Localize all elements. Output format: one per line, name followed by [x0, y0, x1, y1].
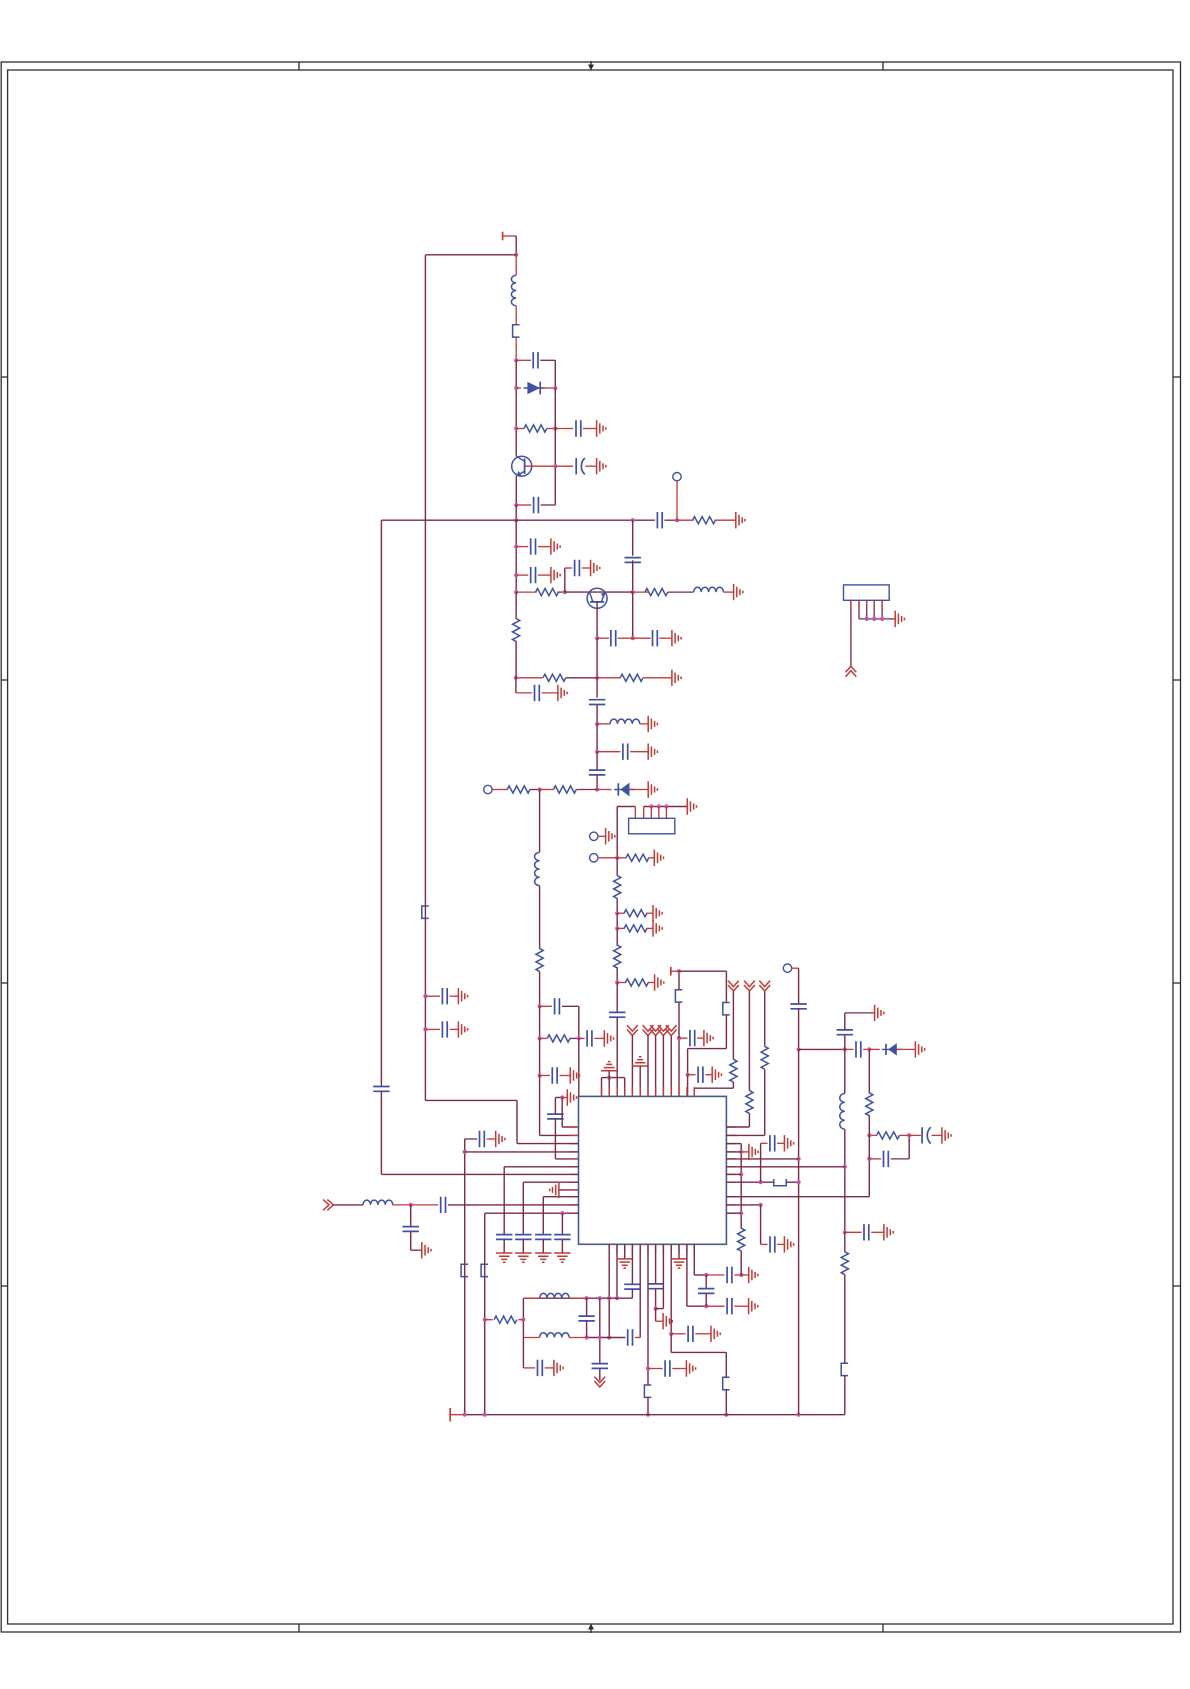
wire — [799, 1048, 845, 1050]
ground — [671, 1259, 687, 1268]
wire — [648, 1368, 663, 1370]
resistor R6 — [620, 674, 643, 681]
wire — [897, 1048, 916, 1050]
wire connector ground bus — [859, 618, 895, 620]
junction — [514, 426, 518, 430]
inductor L1 — [511, 275, 516, 305]
capacitor C28 — [442, 1021, 447, 1037]
wire — [515, 337, 517, 360]
wire Q1 right bus — [554, 388, 556, 505]
IC U1 top pin stub x=601.5 — [601, 1087, 603, 1096]
wire IC left row gnd — [559, 1189, 579, 1191]
junction — [843, 1165, 847, 1169]
junction — [514, 590, 518, 594]
wire — [844, 1034, 846, 1049]
resistor R18 — [730, 1059, 737, 1082]
wire — [725, 1352, 727, 1377]
capacitor C15 — [623, 744, 628, 760]
wire — [671, 1351, 726, 1353]
junction — [538, 1036, 542, 1040]
junction — [585, 1296, 589, 1300]
capacitor C31 — [535, 1235, 551, 1240]
wire — [539, 790, 541, 853]
ground — [551, 538, 560, 554]
junction — [739, 1273, 743, 1277]
junction — [654, 1307, 658, 1311]
wire — [333, 1204, 363, 1206]
wire — [522, 1338, 524, 1368]
wire — [542, 1239, 544, 1253]
wire trimmer pin2 — [643, 807, 645, 819]
capacitor C35 (inline) — [647, 1284, 663, 1289]
junction — [907, 1133, 911, 1137]
wire IC pin b12 — [693, 1244, 695, 1275]
wire IC left row R8 — [543, 1196, 578, 1198]
wire — [688, 1048, 727, 1050]
wire — [596, 724, 598, 752]
ground — [604, 1030, 613, 1046]
wire — [844, 1232, 846, 1252]
wire — [694, 1274, 706, 1276]
wire — [576, 789, 597, 791]
capacitor C25 — [441, 1197, 446, 1213]
resistor R15 — [624, 925, 647, 932]
IC U1 right pin stub y=1204.9 — [726, 1204, 735, 1206]
wire — [616, 967, 618, 983]
supply terminal — [502, 232, 504, 241]
off-page chevron — [658, 1025, 669, 1035]
wire — [555, 1097, 562, 1099]
wire — [515, 236, 517, 255]
IC U1 top pin stub x=609.2 — [608, 1087, 610, 1096]
capacitor C12 — [653, 630, 658, 646]
wire IC pin b2 — [616, 1244, 618, 1298]
wire — [678, 971, 680, 990]
wire — [594, 1037, 604, 1039]
ground — [617, 1259, 633, 1268]
wire — [585, 465, 596, 467]
wire — [596, 704, 598, 724]
wire — [539, 886, 541, 949]
wire — [425, 1099, 517, 1101]
junction — [595, 636, 599, 640]
IC U1 top pin stub x=694.3 — [693, 1087, 695, 1096]
junction — [631, 518, 635, 522]
wire IC pin b9 — [670, 1244, 672, 1334]
wire — [411, 1204, 439, 1206]
junction — [615, 980, 619, 984]
wire — [679, 970, 726, 972]
wire rail x=485 — [484, 1213, 486, 1415]
ground — [535, 1253, 551, 1262]
resistor R1 — [524, 425, 547, 432]
transistor Q2 — [587, 588, 607, 608]
capacitor C3 (polarized) — [576, 458, 585, 474]
ferrite bead FB1 — [513, 325, 520, 337]
wire IC pin b1 — [608, 1244, 610, 1337]
wire — [570, 1037, 579, 1039]
IC U1 top pin stub x=686.9 — [686, 1087, 688, 1096]
wire — [616, 858, 618, 876]
capacitor C33 (inline) — [624, 1284, 640, 1289]
IC U1 bottom pin stub x=648 — [647, 1244, 649, 1253]
wire — [632, 520, 634, 556]
capacitor C9 — [531, 567, 536, 583]
junction — [615, 926, 619, 930]
wire — [618, 637, 633, 639]
IC U1 right pin stub y=1174.4 — [726, 1173, 735, 1175]
capacitor C20 (inline) — [547, 1114, 563, 1119]
junction — [598, 1335, 602, 1339]
wire pin stub — [850, 600, 852, 607]
ground — [648, 781, 657, 797]
wire — [541, 504, 556, 506]
wire — [562, 1005, 579, 1007]
pin P4 — [590, 854, 598, 862]
wire — [734, 1274, 741, 1276]
wire trimmer pin3 — [650, 807, 652, 819]
ground — [567, 1089, 576, 1105]
wire — [516, 677, 543, 679]
off-page chevron — [728, 981, 739, 991]
wire — [393, 1204, 411, 1206]
junction — [423, 994, 427, 998]
wire — [706, 1305, 725, 1307]
IC U1 left pin stub y=1127 — [570, 1126, 579, 1128]
junction — [585, 1335, 589, 1339]
IC U1 right pin stub y=1127 — [726, 1126, 735, 1128]
diode D2 — [614, 783, 634, 797]
junction — [843, 1047, 847, 1051]
IC U1 top pin stub x=671.2 — [670, 1087, 672, 1096]
capacitor C14 (inline) — [589, 700, 605, 705]
IC U1 bottom pin stub x=655.6 — [655, 1244, 657, 1253]
junction — [409, 1203, 413, 1207]
pin P3 — [590, 832, 598, 840]
ground — [653, 905, 662, 921]
wire — [908, 1135, 910, 1159]
IC U1 bottom pin stub x=617 — [616, 1244, 618, 1253]
IC U1 right pin stub y=1135.4 — [726, 1134, 735, 1136]
junction — [595, 750, 599, 754]
capacitor C44 (inline) — [790, 1004, 806, 1009]
wire — [596, 775, 598, 790]
wire — [450, 995, 459, 997]
junction — [514, 386, 518, 390]
wire IC left row R9 — [448, 1204, 579, 1206]
IC U1 left pin stub y=1143.6 — [570, 1143, 579, 1145]
IC U1 right pin stub y=1166.8 — [726, 1166, 735, 1168]
capacitor C7 (inline) — [625, 558, 641, 563]
pin P2 — [484, 785, 492, 793]
ground — [515, 1253, 531, 1262]
ground — [554, 1360, 563, 1376]
wire — [542, 1197, 544, 1235]
off-page chevron — [627, 1025, 638, 1035]
wire — [599, 1368, 601, 1380]
ground — [458, 1021, 467, 1037]
junction — [867, 1047, 871, 1051]
resistor R11 — [547, 1035, 570, 1042]
wire — [516, 692, 532, 694]
wire — [515, 592, 517, 619]
capacitor C46 (inline) — [837, 1030, 853, 1035]
wire — [522, 1239, 524, 1253]
resistor R5 — [543, 674, 566, 681]
wire — [503, 1239, 505, 1253]
IC U1 bottom pin stub x=663.4 — [662, 1244, 664, 1253]
wire — [761, 1243, 768, 1245]
junction — [739, 1211, 743, 1215]
wire — [777, 1243, 784, 1245]
ground — [597, 458, 606, 474]
capacitor C50 — [770, 1135, 775, 1151]
wire IC pin b5 — [639, 1244, 641, 1337]
IC U1 bottom pin stub x=609.2 — [608, 1244, 610, 1253]
wire pin stub — [858, 600, 860, 606]
wire — [845, 1048, 854, 1050]
wire — [741, 1274, 749, 1276]
wire — [410, 1231, 412, 1250]
wire — [706, 1274, 725, 1276]
wire IC pin t2 drop — [608, 1078, 610, 1097]
ground — [884, 1224, 893, 1240]
junction — [463, 1413, 467, 1417]
junction — [646, 1413, 650, 1417]
ground — [687, 798, 696, 814]
off-page chevron (down) — [594, 1377, 605, 1387]
junction — [514, 518, 518, 522]
wire — [538, 574, 551, 576]
wire — [583, 428, 597, 430]
junction — [615, 856, 619, 860]
wire — [633, 591, 649, 593]
resistor R25 — [761, 1046, 768, 1069]
IC U1 left pin stub y=1213.2 — [570, 1212, 579, 1214]
resistor R9 — [554, 786, 577, 793]
wire — [579, 1037, 585, 1039]
frame tick right y=1286 — [1173, 1285, 1181, 1287]
IC U1 right pin stub y=1196.7 — [726, 1196, 735, 1198]
wire IC pin b7 — [655, 1244, 657, 1284]
ground — [749, 1144, 758, 1160]
capacitor C48 — [884, 1151, 889, 1167]
wire IC left row R6 — [381, 1173, 578, 1175]
wire — [688, 1074, 696, 1076]
frame tick right y=377 — [1173, 376, 1181, 378]
wire — [786, 1181, 798, 1183]
ferrite bead FB3 — [723, 1003, 730, 1015]
wire — [566, 677, 597, 679]
wire — [664, 519, 677, 521]
capacitor C10 — [575, 560, 580, 576]
wire — [516, 574, 528, 576]
wire — [845, 1231, 862, 1233]
capacitor C30 — [515, 1235, 531, 1240]
wire — [616, 928, 618, 946]
wire — [555, 428, 573, 430]
wire — [844, 1376, 846, 1415]
wire connector pin2 — [858, 600, 860, 619]
junction — [423, 1027, 427, 1031]
frame tick left y=983 — [1, 982, 7, 984]
junction — [677, 1036, 681, 1040]
frame tick bottom-right — [882, 1624, 884, 1632]
resistor R4 — [645, 589, 668, 596]
junction — [607, 1296, 611, 1300]
wire — [516, 504, 531, 506]
wire IC pin t12 — [687, 1075, 689, 1097]
wire — [869, 1158, 881, 1160]
junction — [797, 1047, 801, 1051]
IC U1 left pin stub y=1166.8 — [570, 1166, 579, 1168]
wire — [679, 1037, 688, 1039]
ground — [551, 567, 560, 583]
wire — [555, 465, 573, 467]
wire — [617, 982, 626, 984]
ground — [570, 1067, 579, 1083]
wire — [599, 1298, 601, 1364]
wire — [411, 1249, 422, 1251]
ground — [942, 1127, 951, 1143]
ground — [648, 744, 657, 760]
resistor R24 — [746, 1091, 753, 1114]
junction — [563, 590, 567, 594]
wire — [932, 1134, 942, 1136]
capacitor C51 — [770, 1236, 775, 1252]
ground — [734, 584, 743, 600]
resistor R21 — [877, 1132, 900, 1139]
wire — [656, 1308, 664, 1310]
junction — [797, 1413, 801, 1417]
wire — [844, 1274, 846, 1363]
junction — [514, 358, 518, 362]
capacitor C16 (inline) — [589, 770, 605, 775]
wire — [522, 1298, 524, 1337]
wire Q1 left bus upper — [515, 360, 517, 456]
resistor R20 — [841, 1252, 848, 1275]
wire pin stub — [881, 600, 883, 606]
junction — [514, 545, 518, 549]
wire IC pin b8 — [662, 1244, 664, 1308]
capacitor C47 — [864, 1224, 869, 1240]
wire — [844, 1013, 846, 1030]
wire — [560, 1075, 571, 1077]
frame centre arrow top — [588, 61, 594, 71]
off-page chevron — [744, 981, 755, 991]
junction — [646, 1366, 650, 1370]
wire — [516, 359, 531, 361]
IC U1 bottom pin stub x=686.9 — [686, 1244, 688, 1253]
IC U1 right pin stub y=1143.6 — [726, 1143, 735, 1145]
diode D3 — [882, 1043, 902, 1055]
junction — [607, 1076, 611, 1080]
wire through Q2 — [565, 591, 633, 593]
wire — [542, 692, 558, 694]
capacitor C24 — [480, 1131, 485, 1147]
resistor R17 — [626, 979, 649, 986]
wire IC left row R5 — [504, 1166, 578, 1168]
wire row 520 — [381, 519, 655, 521]
wire — [869, 1134, 876, 1136]
wire — [697, 1037, 704, 1039]
wire — [732, 991, 734, 1059]
wire — [670, 1334, 672, 1353]
ground — [458, 988, 467, 1004]
wire — [844, 1049, 846, 1093]
wire pin stub — [866, 600, 868, 606]
inverted ground — [601, 1062, 617, 1071]
wire — [659, 637, 672, 639]
wire — [655, 1289, 657, 1309]
wire — [582, 567, 591, 569]
wire — [410, 1205, 412, 1227]
wire — [425, 995, 440, 997]
wire — [764, 1069, 766, 1135]
wire — [655, 1309, 657, 1322]
wire IC left row R10 — [485, 1212, 579, 1214]
wire — [632, 560, 634, 592]
wire — [792, 967, 799, 969]
IC U1 right pin stub y=1151.9 — [726, 1151, 735, 1153]
pin P1 — [673, 473, 681, 481]
ground — [648, 716, 657, 732]
wire — [540, 1005, 552, 1007]
IC U1 top pin stub x=679 — [678, 1087, 680, 1096]
resistor R13 — [614, 876, 621, 899]
IC U1 left pin stub y=1151.9 — [570, 1151, 579, 1153]
IC U1 left pin stub y=1182.2 — [570, 1181, 579, 1183]
wire — [547, 428, 556, 430]
capacitor C40 — [628, 1329, 633, 1345]
frame tick top-left — [298, 62, 300, 70]
wire — [530, 789, 540, 791]
wire Q2 base down — [596, 602, 598, 638]
wire — [672, 1368, 686, 1370]
capacitor C37 — [727, 1298, 732, 1314]
wire IC right row R2 — [726, 1143, 741, 1145]
resistor R12 — [626, 854, 649, 861]
IC U1 top pin stub x=648 — [647, 1087, 649, 1096]
wire IC pin t1 drop — [601, 1078, 603, 1097]
wire — [540, 1075, 550, 1077]
ground — [606, 828, 615, 844]
IC U1 — [579, 1096, 727, 1244]
ground — [749, 1298, 758, 1314]
wire — [616, 807, 618, 858]
wire IC right row R7 — [726, 1181, 773, 1183]
wire left rail B lower — [380, 1091, 382, 1174]
junction — [595, 722, 599, 726]
junction — [631, 590, 635, 594]
wire IC pin b11 — [686, 1244, 688, 1306]
capacitor C1 — [533, 352, 538, 368]
ferrite bead FB9 — [841, 1363, 848, 1375]
wire — [668, 591, 694, 593]
IC U1 right pin stub y=1213.2 — [726, 1212, 735, 1214]
wire Q1 emitter — [515, 476, 517, 505]
wire — [503, 1167, 505, 1235]
inductor L8 — [840, 1094, 845, 1130]
IC U1 bottom pin stub x=624.7 — [624, 1244, 626, 1253]
wire — [647, 1398, 649, 1415]
wire — [671, 1333, 686, 1335]
wire — [760, 1143, 762, 1182]
wire row 1337 — [587, 1337, 626, 1339]
wire — [868, 1049, 870, 1093]
wire — [554, 1098, 556, 1115]
junction — [797, 1157, 801, 1161]
